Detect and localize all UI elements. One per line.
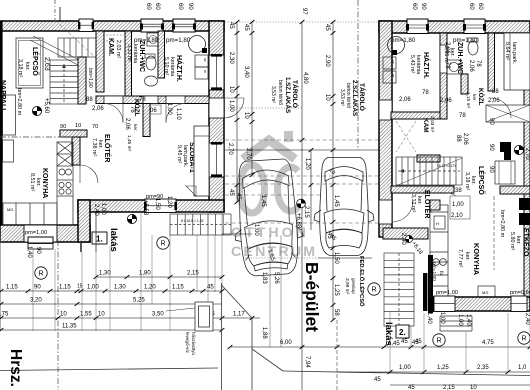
svg-text:60: 60 [468,3,474,10]
heat pump [195,302,213,331]
wall x484 B [488,33,495,91]
svg-text:1,45: 1,45 [333,195,339,207]
kitchen counters A [3,142,73,225]
wall stair/KAM [96,31,104,92]
extension lines below A [1,212,223,331]
right edge wall B [524,33,530,298]
svg-text:greslap: greslap [350,278,356,294]
svg-text:ker.: ker. [464,252,470,261]
svg-text:pm=1,00: pm=1,00 [436,290,458,296]
svg-text:3,53 m²: 3,53 m² [339,89,345,106]
svg-text:3,20: 3,20 [30,298,42,304]
wall below stairs B [391,186,454,193]
svg-text:1,00: 1,00 [100,203,106,215]
svg-text:sz: sz [391,60,395,64]
svg-text:1,00: 1,00 [452,202,464,208]
svg-text:MG: MG [482,290,488,295]
elevation marker +5,60 [32,106,41,115]
svg-text:pm=1,00: pm=1,00 [431,262,437,281]
fold corner szoba1 [186,186,196,196]
svg-text:2,10: 2,10 [451,213,463,219]
svg-text:2,06: 2,06 [399,97,411,103]
left edge wall bar [0,21,3,242]
svg-text:1,00: 1,00 [166,103,172,115]
svg-text:H: H [436,221,439,226]
dashdot axis x358 [357,0,359,150]
chain x252 [251,22,253,175]
svg-text:90: 90 [420,3,426,10]
corridor wall y96 [96,96,209,104]
dashed axis x337 bottom [336,320,338,390]
svg-text:1,00: 1,00 [439,312,445,324]
svg-text:1.SZ.LAKÁS: 1.SZ.LAKÁS [284,77,291,113]
svg-text:60: 60 [145,3,151,10]
svg-text:78: 78 [422,90,429,96]
svg-text:1,80: 1,80 [139,271,151,277]
svg-text:3,40: 3,40 [243,66,249,78]
car 1 [231,158,306,277]
svg-text:Hrsz.: Hrsz. [7,349,24,387]
svg-text:2.: 2. [399,328,406,337]
svg-text:90: 90 [60,124,66,130]
door arcs corridor [104,104,123,123]
chain x237 [236,22,238,202]
svg-text:9,45 m²: 9,45 m² [176,145,182,163]
svg-text:10: 10 [60,312,67,318]
svg-text:pm=1,80: pm=1,80 [166,37,191,44]
wall eloter top-left [60,130,87,137]
svg-text:1,00: 1,00 [253,224,259,236]
svg-text:5,80 m²: 5,80 m² [509,232,515,250]
svg-text:LÉPCSŐ: LÉPCSŐ [477,166,486,195]
svg-text:pm=1,00: pm=1,00 [25,230,47,236]
svg-text:1,45 m²: 1,45 m² [126,135,132,152]
wc A [146,56,156,70]
entry door gap left wall B [379,200,392,224]
window W2 top [173,19,195,32]
svg-text:90: 90 [488,144,494,151]
svg-text:2,15: 2,15 [443,385,455,390]
svg-text:1,00: 1,00 [399,365,411,371]
svg-text:90: 90 [488,118,494,125]
window right wall lower [209,143,224,177]
boiler circle A [189,36,206,53]
svg-text:3,18 m²: 3,18 m² [464,172,470,190]
elevation +5,58 [127,214,136,223]
svg-text:2,06: 2,06 [462,133,468,145]
svg-text:88: 88 [455,135,461,142]
boiler B [388,37,405,54]
svg-text:bm=1,90: bm=1,90 [87,68,93,88]
svg-text:45: 45 [408,385,415,390]
svg-text:pm=0,60: pm=0,60 [510,290,530,296]
wall KAM/ZUH [125,31,132,96]
svg-text:fix: fix [438,271,444,276]
svg-text:ZUH.+WC: ZUH.+WC [138,40,145,72]
svg-text:,75: ,75 [0,312,9,318]
svg-text:KONYHA: KONYHA [41,168,48,198]
svg-text:2.SZ.LAKÁS: 2.SZ.LAKÁS [351,80,358,116]
dashdot axis x58 [57,240,59,390]
svg-text:2,70: 2,70 [524,148,530,160]
svg-text:90: 90 [34,285,41,291]
car 2 [314,158,374,256]
kitchen counters B [430,205,495,297]
svg-text:90: 90 [35,247,41,254]
bottom wall right part [78,194,224,213]
svg-text:78: 78 [444,62,450,69]
svg-text:1,15: 1,15 [172,285,184,291]
dotted y258 left part [245,257,330,259]
svg-text:60: 60 [411,3,417,10]
parking area lines [225,139,390,141]
svg-text:bm=2,80 m: bm=2,80 m [16,88,22,116]
svg-text:1,20: 1,20 [166,196,172,208]
bottom dims right [230,346,530,348]
svg-text:5,26: 5,26 [273,272,279,284]
svg-text:1,45: 1,45 [260,195,266,207]
watermark OC logo [240,131,299,213]
svg-text:m: m [391,74,395,77]
dim row R2 [0,290,222,292]
svg-text:1,50: 1,50 [154,198,160,210]
svg-text:5,10 m²: 5,10 m² [163,57,169,75]
svg-text:10: 10 [75,123,81,129]
R mark lakas1 [157,237,169,249]
svg-text:2,06: 2,06 [124,118,130,130]
plot boundary left [0,368,218,371]
svg-text:1,00: 1,00 [228,100,234,112]
svg-text:HÁZT.H.: HÁZT.H. [422,52,431,79]
svg-text:1,55: 1,55 [80,312,92,318]
svg-text:4,75: 4,75 [482,340,494,346]
svg-text:2,40: 2,40 [524,313,530,325]
svg-text:1,17: 1,17 [233,312,245,318]
svg-text:MG: MG [7,207,13,212]
svg-text:3,99 m²: 3,99 m² [344,278,350,295]
svg-text:11,35: 11,35 [62,324,77,330]
svg-text:3,12 m²: 3,12 m² [410,194,416,212]
window symbol kitchen [28,237,53,243]
dim row R4 [0,317,260,319]
svg-text:TÁROLÓ: TÁROLÓ [291,80,300,108]
svg-text:ELŐTÉR: ELŐTÉR [103,134,112,162]
svg-text:8,64 m²: 8,64 m² [504,42,510,60]
svg-text:1,0: 1,0 [518,365,527,371]
chain x333 [332,22,334,320]
svg-text:1,25: 1,25 [437,365,449,371]
stair room table [16,38,43,88]
svg-text:2,06: 2,06 [468,60,474,72]
svg-text:2,15: 2,15 [187,271,199,277]
bottom wall kitchen part [0,225,90,242]
elevation dot +6,88 [297,199,306,208]
svg-text:2,06: 2,06 [440,98,452,104]
door arc bedroom B [491,98,511,118]
bottom wall B [433,290,530,312]
dotted line y22 [225,21,390,23]
wall stair east [78,57,86,104]
drain pipes [80,242,82,252]
svg-text:bm=2,80 m: bm=2,80 m [499,210,505,238]
svg-text:2,03 m²: 2,03 m² [115,40,121,58]
svg-text:70: 70 [92,124,98,130]
svg-text:2,40: 2,40 [400,233,406,245]
svg-text:1,20: 1,20 [144,285,156,291]
section dashdot line [0,136,72,138]
wall y112 B [391,112,447,119]
svg-text:97: 97 [301,8,307,15]
svg-text:3,31 m²: 3,31 m² [126,44,132,62]
dim row R5 [0,329,222,331]
door gap right wall A [209,98,224,118]
extension verticals B bottom [390,312,530,372]
terrace steps B [440,316,472,331]
svg-text:45: 45 [228,22,234,29]
svg-text:10: 10 [228,86,234,93]
svg-text:10: 10 [470,385,477,390]
stairs B [396,157,462,185]
bed A [194,126,209,196]
top wall B [379,19,530,34]
wall eloter/konyha B [430,200,440,210]
svg-text:45: 45 [235,193,241,200]
shower B [447,60,461,74]
svg-text:B-épület: B-épület [302,262,322,332]
window right wall upper [209,55,224,90]
svg-text:2,90: 2,90 [324,55,330,67]
svg-text:FED.ELŐ.LÉPCSŐ: FED.ELŐ.LÉPCSŐ [358,256,366,307]
svg-text:1,40: 1,40 [426,312,432,324]
short chain x311 [310,150,312,230]
elevation 8,18 [405,235,412,242]
svg-text:ÉTKEZŐ: ÉTKEZŐ [522,228,530,257]
washbasin A [145,76,158,86]
svg-text:2,03 m²: 2,03 m² [429,116,435,133]
chain x302 [301,22,303,390]
svg-text:7,38 m²: 7,38 m² [91,138,97,156]
wall x461 B [461,74,468,94]
svg-text:45: 45 [415,339,422,345]
svg-text:KÖZL: KÖZL [133,99,142,116]
svg-text:10: 10 [243,112,249,119]
svg-text:88: 88 [492,89,499,95]
svg-text:5,25: 5,25 [133,298,145,304]
svg-text:45: 45 [324,24,330,31]
black cabinets right edge [519,198,530,210]
svg-text:16 17=0,173: 16 17=0,173 [437,164,456,168]
stair break line [30,40,80,66]
svg-text:lakás: lakás [108,228,119,252]
svg-text:1,30: 1,30 [99,271,111,277]
svg-text:1,15 m²: 1,15 m² [465,92,471,109]
stairwell A upper flight [58,38,96,57]
svg-text:4,80: 4,80 [302,72,308,84]
svg-text:3,18 m²: 3,18 m² [17,59,23,77]
sofa nappali [3,95,16,135]
corner wall B bottom-left [383,228,428,239]
svg-text:90: 90 [187,3,193,10]
svg-text:3,53 m²: 3,53 m² [270,86,276,103]
svg-text:1,40: 1,40 [465,314,471,326]
chimney black B [500,142,511,152]
svg-text:2,30: 2,30 [228,52,234,64]
svg-text:1.: 1. [96,235,103,244]
svg-text:LÉPCSŐ: LÉPCSŐ [31,47,40,76]
wall eloter/szoba [143,104,150,137]
svg-text:1,30: 1,30 [114,285,126,291]
svg-text:78: 78 [459,113,466,119]
svg-text:60: 60 [154,3,160,10]
svg-text:90: 90 [488,166,494,173]
wall konyha/eloter [72,137,80,165]
svg-text:ZUH.+WC: ZUH.+WC [456,42,463,74]
svg-text:ker.: ker. [24,62,30,71]
svg-text:sz: sz [203,58,207,62]
svg-text:7,94: 7,94 [304,356,310,368]
window W1 top [141,19,163,32]
svg-text:78: 78 [475,60,481,67]
svg-text:45: 45 [401,339,408,345]
svg-text:15: 15 [77,284,83,290]
svg-text:1,88: 1,88 [261,327,267,339]
svg-text:1,00: 1,00 [457,314,463,326]
dim row R3 [0,303,222,305]
svg-text:88: 88 [86,97,93,103]
svg-text:beton térkő: beton térkő [277,80,283,105]
svg-text:6,00: 6,00 [280,340,292,346]
svg-text:ker.: ker. [132,124,138,132]
svg-text:KÖZL: KÖZL [477,88,486,105]
washer dryer A [195,55,208,67]
svg-text:3,50: 3,50 [152,312,164,318]
svg-text:45: 45 [374,377,381,383]
dim row R1 [96,276,222,278]
svg-text:KONYHA: KONYHA [472,243,481,276]
FED.ELŐ.LÉPCSŐ steps [384,253,414,326]
svg-text:1,83: 1,83 [261,272,267,284]
svg-text:38: 38 [455,188,462,194]
svg-text:2,06: 2,06 [92,106,104,112]
svg-text:+5,58: +5,58 [142,200,148,216]
svg-text:+5,60: +5,60 [43,98,49,114]
right wall [209,21,224,212]
svg-text:2,15: 2,15 [303,206,309,218]
svg-text:1,15: 1,15 [6,285,18,291]
svg-text:KAM: KAM [422,118,429,133]
svg-text:1,40: 1,40 [26,246,32,258]
washer dryer B [383,57,396,69]
svg-text:2,06: 2,06 [488,98,500,104]
wall y186 B right [500,186,530,194]
svg-text:m: m [203,70,207,73]
svg-text:2,70: 2,70 [227,143,233,155]
svg-text:45: 45 [207,285,214,291]
window W0 top [79,19,93,32]
dashed axis x494 [493,196,495,270]
svg-text:TÁROLÓ: TÁROLÓ [358,83,367,111]
stairwell A treads lower flight [50,60,78,104]
wall ZUH/HAZT [158,31,165,78]
entrance steps lakás1 [170,214,231,235]
svg-text:60: 60 [177,3,183,10]
svg-text:2,35: 2,35 [477,365,489,371]
boundary corner [221,283,223,390]
verticals x270 x281 [269,235,271,347]
table B [495,161,515,184]
door to tároló in left wall [379,100,392,120]
R mark left [35,267,47,279]
svg-text:lam.park.: lam.park. [511,42,517,64]
svg-text:1,10: 1,10 [175,108,181,120]
svg-text:1,15: 1,15 [59,285,71,291]
bedroom B bed [504,33,530,90]
dashdot line top left [54,0,56,21]
svg-text:levegő-víz: levegő-víz [185,332,190,354]
left wall B [379,21,392,237]
svg-text:2,63: 2,63 [43,57,50,71]
R marks bottom B [433,334,445,346]
svg-text:10: 10 [98,312,105,318]
wardrobe B [486,105,530,122]
svg-text:ker.: ker. [471,94,477,102]
svg-text:7,77 m²: 7,77 m² [457,249,463,267]
svg-text:HÁZT.H.: HÁZT.H. [175,55,184,82]
top wall [0,19,224,32]
svg-text:2,06: 2,06 [444,42,450,54]
svg-text:5,43 m²: 5,43 m² [409,55,415,73]
svg-text:10: 10 [324,94,330,101]
connector wall kitchen corner [78,200,90,242]
wc B [468,41,478,55]
svg-text:8,51 m²: 8,51 m² [29,173,35,191]
svg-text:1,25: 1,25 [333,284,339,296]
wall x440 B [440,33,447,119]
svg-text:58: 58 [333,309,339,316]
svg-text:60: 60 [477,3,483,10]
wall y155 B [417,155,440,162]
svg-text:1,00: 1,00 [87,285,99,291]
svg-text:KAM.: KAM. [107,38,114,56]
shower A [147,33,159,46]
svg-text:45: 45 [243,24,249,31]
svg-text:1,20: 1,20 [304,158,310,170]
svg-text:8 x 16,5 = 1,32: 8 x 16,5 = 1,32 [181,219,204,223]
svg-text:hőszivattyú: hőszivattyú [191,332,196,355]
